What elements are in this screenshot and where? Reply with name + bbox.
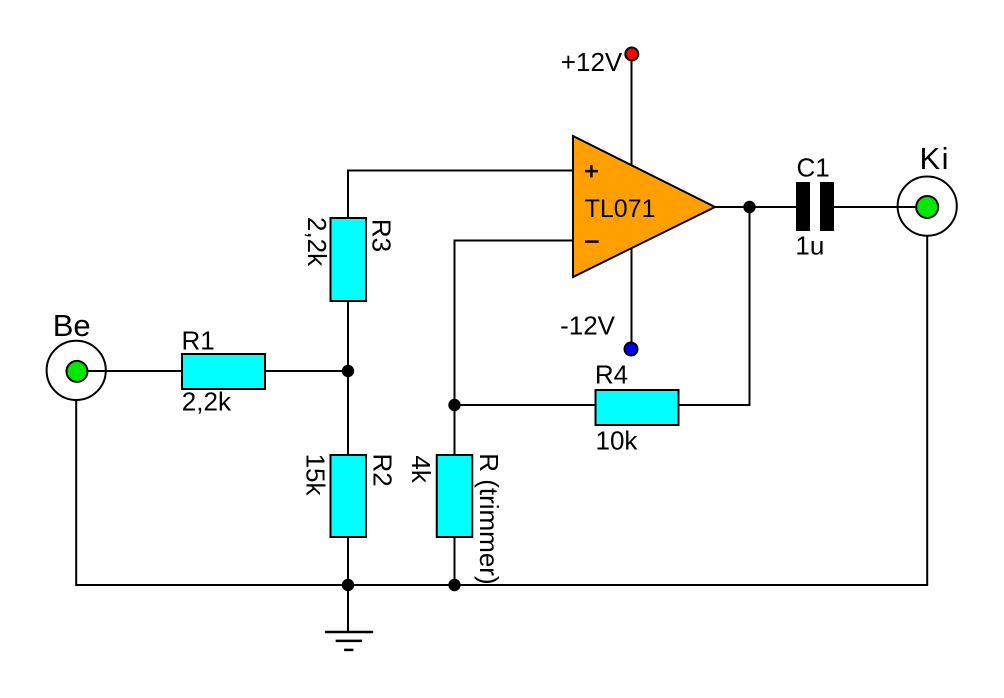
svg-text:-12V: -12V: [560, 311, 616, 341]
svg-text:R (trimmer): R (trimmer): [474, 453, 504, 584]
svg-text:10k: 10k: [596, 426, 639, 456]
svg-text:1u: 1u: [795, 230, 824, 260]
svg-text:2,2k: 2,2k: [182, 387, 232, 417]
svg-text:R3: R3: [367, 219, 397, 252]
svg-text:+12V: +12V: [561, 47, 623, 77]
svg-text:4k: 4k: [406, 455, 436, 483]
svg-text:TL071: TL071: [585, 195, 656, 223]
svg-text:15k: 15k: [301, 454, 331, 497]
svg-text:C1: C1: [797, 153, 830, 183]
svg-text:R1: R1: [182, 326, 215, 356]
svg-text:R2: R2: [368, 454, 398, 487]
svg-text:R4: R4: [595, 360, 628, 390]
svg-text:Ki: Ki: [920, 141, 951, 176]
svg-text:2,2k: 2,2k: [302, 217, 332, 267]
svg-text:Be: Be: [53, 308, 91, 343]
